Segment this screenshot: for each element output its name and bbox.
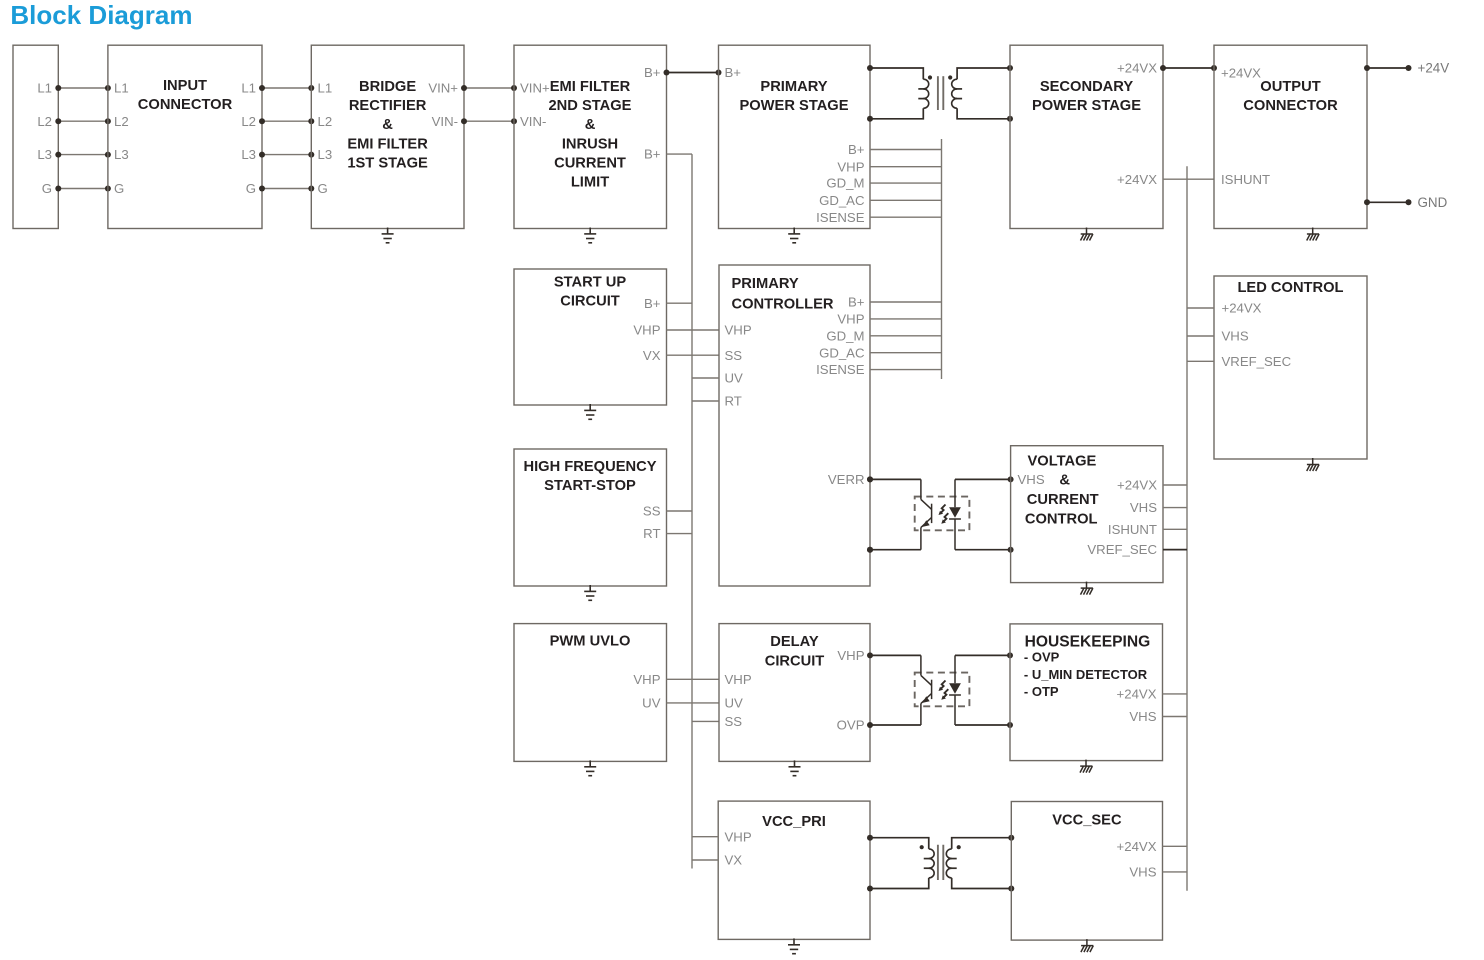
ground (chassis) under SECONDARY POWER STAGE [1081, 228, 1093, 241]
wire VHS: right bus to LED CONTROL [1187, 335, 1214, 337]
junction dot GND left [1364, 199, 1370, 205]
junction dot L2 left [55, 118, 61, 124]
svg-text:START UP: START UP [554, 275, 627, 291]
wire L1: INPUT CONNECTOR to BRIDGE RECTIFIER [262, 87, 311, 89]
svg-text:VHP: VHP [725, 672, 752, 687]
wire optocoupler OC2 to right block top [955, 654, 1010, 656]
ground (chassis) under OUTPUT CONNECTOR [1307, 228, 1319, 241]
svg-text:CIRCUIT: CIRCUIT [560, 294, 620, 310]
svg-text:LIMIT: LIMIT [571, 175, 609, 191]
optocoupler OC2 phototransistor [921, 655, 932, 725]
svg-text:B+: B+ [848, 295, 865, 310]
svg-text:G: G [246, 181, 256, 196]
svg-text:VIN+: VIN+ [520, 81, 550, 96]
wire L1: mains terminal to INPUT CONNECTOR [58, 87, 108, 89]
block U5: SECONDARY POWER STAGE [1010, 45, 1163, 228]
wire GD_M: PRIMARY POWER STAGE to gate-drive bus [870, 182, 942, 184]
junction dot L3 right [308, 152, 314, 158]
terminal dot +24V [1406, 65, 1412, 71]
junction dot optocoupler OC1 right-bottom [1008, 547, 1014, 553]
svg-text:VHP: VHP [725, 829, 752, 844]
ground (earth) under PWM UVLO [584, 760, 596, 775]
svg-text:&: & [585, 117, 596, 133]
svg-text:CONNECTOR: CONNECTOR [138, 97, 233, 113]
svg-text:GND: GND [1418, 195, 1448, 210]
wire UV: PWM UVLO to DELAY CIRCUIT [667, 702, 720, 704]
svg-text:EMI FILTER: EMI FILTER [347, 137, 428, 153]
svg-text:RECTIFIER: RECTIFIER [349, 98, 427, 114]
wire VHS: VOLTAGE & CURRENT CONTROL to right bus [1163, 507, 1187, 509]
junction dot T1 secondary bottom [1007, 116, 1013, 122]
wire VERR top to optocoupler OC1 [870, 478, 921, 480]
wire L3: mains terminal to INPUT CONNECTOR [58, 154, 108, 156]
svg-text:GD_M: GD_M [826, 176, 864, 191]
svg-text:G: G [42, 181, 52, 196]
wire +24VX: VOLTAGE & CURRENT CONTROL to right bus [1163, 484, 1187, 486]
svg-text:L1: L1 [241, 81, 256, 96]
wire G: mains terminal to INPUT CONNECTOR [58, 188, 108, 190]
junction dot L1 left [259, 85, 265, 91]
svg-text:VHS: VHS [1130, 500, 1157, 515]
optocoupler OC2 dashed package outline [915, 673, 970, 707]
junction dot T2 primary top [867, 835, 873, 841]
svg-text:G: G [114, 181, 124, 196]
junction dot +24VX left [1160, 65, 1166, 71]
junction dot T1 primary bottom [867, 116, 873, 122]
wire RT: B+ bus to PRIMARY CONTROLLER [692, 400, 719, 402]
svg-text:+24V: +24V [1418, 61, 1450, 76]
wire: vertical +24VX/VHS bus (right side) [1186, 166, 1188, 891]
svg-text:SS: SS [725, 714, 743, 729]
svg-text:INPUT: INPUT [163, 78, 207, 94]
wire ISHUNT: VOLTAGE & CURRENT CONTROL to right bus [1163, 528, 1187, 530]
block U14: HOUSEKEEPING [1010, 624, 1163, 761]
wire optocoupler OC2 to right block bottom [955, 724, 1010, 726]
wire B+: START UP CIRCUIT to B+ bus [667, 302, 693, 304]
wire VX-SS: START UP CIRCUIT to PRIMARY CONTROLLER [667, 354, 720, 356]
svg-text:L1: L1 [37, 81, 52, 96]
wire +24VX: SECONDARY POWER STAGE to OUTPUT CONNECTOR [1163, 67, 1214, 69]
svg-text:1ST STAGE: 1ST STAGE [347, 156, 428, 172]
svg-text:+24VX: +24VX [1222, 301, 1262, 316]
wire +24V output terminal [1367, 67, 1409, 69]
svg-text:UV: UV [725, 696, 744, 711]
junction dot L2 right [105, 118, 111, 124]
transformer T2 primary winding [929, 849, 934, 878]
junction dot T2 primary bottom [867, 886, 873, 892]
svg-text:VHP: VHP [633, 323, 660, 338]
junction dot L3 right [105, 152, 111, 158]
junction dot VIN+ left [461, 85, 467, 91]
junction dot L3 left [259, 152, 265, 158]
wire VHP: PRIMARY CONTROLLER to gate-drive bus [870, 318, 942, 320]
transformer T1: secondary loop wires [957, 68, 1010, 119]
svg-text:VIN-: VIN- [432, 114, 458, 129]
junction dot L1 right [105, 85, 111, 91]
svg-text:PRIMARY: PRIMARY [760, 79, 827, 95]
wire VIN+: BRIDGE RECTIFIER to EMI FILTER 2ND STAGE [464, 87, 514, 89]
svg-text:L2: L2 [114, 114, 129, 129]
block U4: PRIMARY POWER STAGE [719, 45, 871, 228]
wire +24VX: right bus to LED CONTROL [1187, 307, 1214, 309]
wire bottom return from optocoupler OC1 [870, 549, 921, 551]
wire B+ lower: EMI FILTER to B+ bus [667, 153, 693, 155]
block U12: PWM UVLO [514, 624, 667, 762]
transformer T1: main transformer primary loop wires [870, 68, 923, 119]
wire GD_AC: PRIMARY CONTROLLER to gate-drive bus [870, 352, 942, 354]
svg-text:VHS: VHS [1129, 865, 1156, 880]
transformer T2 core [938, 845, 943, 880]
svg-text:+24VX: +24VX [1117, 172, 1157, 187]
terminal dot GND [1406, 199, 1412, 205]
wire VREF_SEC: VOLTAGE & CURRENT CONTROL to right bus [1163, 549, 1187, 551]
svg-text:L2: L2 [318, 114, 333, 129]
svg-text:2ND STAGE: 2ND STAGE [549, 98, 632, 114]
junction dot L2 left [259, 118, 265, 124]
wire GND output terminal [1367, 201, 1409, 203]
svg-text:L3: L3 [241, 147, 256, 162]
ground (earth) under HIGH FREQUENCY START-STOP [584, 585, 596, 600]
wire +24VX: VCC_SEC to right bus [1163, 845, 1188, 847]
ground (earth) under BRIDGE RECTIFIER [382, 228, 394, 243]
wire UV: B+ bus to PRIMARY CONTROLLER [692, 377, 719, 379]
svg-text:OUTPUT: OUTPUT [1260, 79, 1320, 95]
junction dot optocoupler OC1 right-top [1008, 476, 1014, 482]
junction dot VIN- right [511, 118, 517, 124]
svg-text:HIGH FREQUENCY: HIGH FREQUENCY [523, 459, 656, 475]
wire SS: HIGH FREQUENCY to B+ bus [667, 510, 693, 512]
svg-text:VIN+: VIN+ [428, 81, 458, 96]
transformer T2: VCC transformer primary loop wires [870, 838, 929, 889]
svg-text:VHS: VHS [1222, 329, 1249, 344]
wire ISHUNT: SECONDARY POWER STAGE to OUTPUT CONNECTOR [1163, 178, 1214, 180]
svg-text:RT: RT [643, 526, 660, 541]
junction dot G left [259, 186, 265, 192]
transformer T1 primary winding [923, 79, 928, 108]
svg-text:Block Diagram: Block Diagram [10, 0, 192, 30]
junction dot T2 secondary top [1008, 835, 1014, 841]
svg-text:LED CONTROL: LED CONTROL [1237, 280, 1343, 296]
block U3: EMI FILTER 2ND STAGE & INRUSH CURRENT LIMIT [514, 45, 667, 228]
junction dot optocoupler OC2 left-bottom [867, 722, 873, 728]
wire G: INPUT CONNECTOR to BRIDGE RECTIFIER [262, 188, 311, 190]
svg-text:CONNECTOR: CONNECTOR [1243, 98, 1338, 114]
wire VIN-: BRIDGE RECTIFIER to EMI FILTER 2ND STAGE [464, 120, 514, 122]
svg-text:VREF_SEC: VREF_SEC [1222, 354, 1292, 369]
wire +24VX: HOUSEKEEPING to right bus [1163, 693, 1188, 695]
svg-text:VHP: VHP [633, 672, 660, 687]
svg-text:VERR: VERR [828, 472, 865, 487]
svg-text:VCC_PRI: VCC_PRI [762, 814, 826, 830]
svg-text:CONTROL: CONTROL [1025, 511, 1098, 527]
svg-text:VHP: VHP [837, 648, 864, 663]
transformer T1 polarity dot secondary [948, 75, 952, 79]
ground (chassis) under LED CONTROL [1307, 458, 1319, 471]
block U16: VCC_SEC [1011, 802, 1162, 941]
wire L2: INPUT CONNECTOR to BRIDGE RECTIFIER [262, 120, 311, 122]
ground (chassis) under VCC_SEC [1081, 939, 1093, 952]
svg-text:GD_M: GD_M [826, 328, 864, 343]
junction dot optocoupler OC2 right-bottom [1007, 722, 1013, 728]
svg-text:- OVP: - OVP [1024, 650, 1060, 665]
svg-text:SS: SS [725, 348, 743, 363]
transformer T1 secondary winding [952, 79, 957, 108]
junction dot L1 right [308, 85, 314, 91]
svg-text:+24VX: +24VX [1117, 687, 1157, 702]
svg-text:SS: SS [643, 504, 661, 519]
block U2: BRIDGE RECTIFIER & EMI FILTER 1ST STAGE [311, 45, 464, 228]
wire SS: B+ bus to DELAY CIRCUIT [692, 720, 719, 722]
junction dot VIN+ right [511, 85, 517, 91]
svg-text:+24VX: +24VX [1117, 839, 1157, 854]
wire VHP: PRIMARY POWER STAGE to gate-drive bus [870, 166, 942, 168]
optocoupler OC1 light arrows [940, 505, 945, 514]
svg-text:RT: RT [725, 394, 742, 409]
block U6: OUTPUT CONNECTOR [1214, 45, 1367, 228]
svg-text:+24VX: +24VX [1221, 65, 1261, 80]
wire VHP: PWM UVLO to DELAY CIRCUIT [667, 678, 720, 680]
wire ISENSE: PRIMARY CONTROLLER to gate-drive bus [870, 369, 942, 371]
wire GD_AC: PRIMARY POWER STAGE to gate-drive bus [870, 199, 942, 201]
junction dot optocoupler OC2 right-top [1007, 652, 1013, 658]
wire L2: mains terminal to INPUT CONNECTOR [58, 120, 108, 122]
wire bottom return from optocoupler OC2 [870, 724, 921, 726]
svg-text:UV: UV [642, 696, 661, 711]
block U13: DELAY CIRCUIT [719, 624, 870, 762]
wire VX: B+ bus to VCC_PRI [692, 859, 718, 861]
transformer T2: secondary loop wires [952, 838, 1012, 889]
wire VERR top to optocoupler OC2 [870, 654, 921, 656]
junction dot VIN- left [461, 118, 467, 124]
wire RT: HIGH FREQUENCY to B+ bus [667, 533, 693, 535]
junction dot T2 secondary bottom [1008, 886, 1014, 892]
junction dot L3 left [55, 152, 61, 158]
svg-text:DELAY: DELAY [770, 634, 819, 650]
junction dot G left [55, 186, 61, 192]
svg-text:EMI FILTER: EMI FILTER [550, 79, 631, 95]
svg-text:+24VX: +24VX [1117, 61, 1157, 76]
svg-text:+24VX: +24VX [1117, 478, 1157, 493]
block U8: PRIMARY CONTROLLER [719, 265, 870, 586]
junction dot optocoupler OC1 left-top [867, 476, 873, 482]
svg-text:L2: L2 [241, 114, 256, 129]
svg-text:- OTP: - OTP [1024, 684, 1059, 699]
svg-text:CIRCUIT: CIRCUIT [765, 654, 825, 670]
wire: vertical B+ bus (net B+) [691, 154, 693, 868]
junction dot B+ right [716, 70, 722, 76]
junction dot VERR (PRIMARY CONTROLLER) [867, 476, 873, 482]
svg-text:VCC_SEC: VCC_SEC [1052, 812, 1122, 828]
svg-text:ISENSE: ISENSE [816, 210, 865, 225]
optocoupler OC1 dashed package outline [915, 497, 970, 531]
svg-text:B+: B+ [644, 147, 661, 162]
svg-text:L1: L1 [318, 81, 333, 96]
svg-text:GD_AC: GD_AC [819, 193, 865, 208]
wire VHP: START UP CIRCUIT to PRIMARY CONTROLLER [667, 329, 720, 331]
block U10: VOLTAGE & CURRENT CONTROL [1011, 446, 1163, 583]
wire optocoupler OC1 to right block top [955, 478, 1011, 480]
junction dot B+ left [664, 70, 670, 76]
svg-text:PRIMARY: PRIMARY [732, 276, 799, 292]
svg-text:L3: L3 [114, 147, 129, 162]
svg-text:INRUSH: INRUSH [562, 137, 618, 153]
block U9: HIGH FREQUENCY START-STOP [514, 449, 667, 586]
transformer T1 polarity dot primary [928, 75, 932, 79]
ground (chassis) under VOLTAGE & CURRENT CONTROL [1081, 582, 1093, 595]
svg-text:VHS: VHS [1129, 709, 1156, 724]
svg-text:VOLTAGE: VOLTAGE [1028, 454, 1097, 470]
junction dot optocoupler OC1 left-bottom [867, 547, 873, 553]
ground (earth) under EMI FILTER 2ND STAGE [584, 228, 596, 243]
svg-text:ISENSE: ISENSE [816, 362, 865, 377]
svg-text:VX: VX [643, 348, 661, 363]
junction dot G right [308, 186, 314, 192]
svg-text:B+: B+ [644, 296, 661, 311]
optocoupler OC1 LED [949, 479, 961, 549]
svg-text:ISHUNT: ISHUNT [1221, 172, 1270, 187]
svg-text:&: & [382, 117, 393, 133]
svg-text:L1: L1 [114, 81, 129, 96]
transformer T2 polarity dot secondary [957, 845, 961, 849]
svg-text:UV: UV [725, 371, 744, 386]
svg-text:VHP: VHP [725, 323, 752, 338]
svg-text:- U_MIN DETECTOR: - U_MIN DETECTOR [1024, 667, 1148, 682]
ground (earth) under START UP CIRCUIT [584, 404, 596, 419]
transformer T1 core [938, 76, 943, 110]
junction dot L2 right [308, 118, 314, 124]
wire VHS: VCC_SEC to right bus [1163, 871, 1188, 873]
svg-text:VREF_SEC: VREF_SEC [1087, 542, 1157, 557]
svg-text:HOUSEKEEPING: HOUSEKEEPING [1025, 634, 1151, 651]
svg-text:B+: B+ [644, 65, 661, 80]
svg-text:BRIDGE: BRIDGE [359, 79, 416, 95]
optocoupler OC1 phototransistor [921, 479, 932, 549]
wire VHS: HOUSEKEEPING to right bus [1163, 716, 1188, 718]
ground (chassis) under HOUSEKEEPING [1080, 760, 1092, 773]
junction dot +24VX right [1211, 65, 1217, 71]
svg-text:G: G [318, 181, 328, 196]
junction dot +24V left [1364, 65, 1370, 71]
optocoupler OC2 LED [949, 655, 961, 725]
block U11: LED CONTROL [1214, 276, 1367, 459]
ground (earth) under DELAY CIRCUIT [789, 760, 801, 775]
svg-text:GD_AC: GD_AC [819, 345, 865, 360]
svg-text:POWER STAGE: POWER STAGE [1032, 98, 1141, 114]
svg-text:B+: B+ [725, 65, 742, 80]
svg-text:OVP: OVP [837, 718, 865, 733]
svg-text:CONTROLLER: CONTROLLER [732, 297, 834, 313]
block U1: INPUT CONNECTOR [108, 45, 262, 228]
svg-text:VHP: VHP [837, 312, 864, 327]
svg-text:VIN-: VIN- [520, 114, 546, 129]
svg-text:VHS: VHS [1018, 472, 1045, 487]
svg-text:CURRENT: CURRENT [1027, 492, 1099, 508]
svg-text:ISHUNT: ISHUNT [1108, 522, 1157, 537]
svg-text:CURRENT: CURRENT [554, 156, 626, 172]
svg-text:PWM UVLO: PWM UVLO [550, 634, 631, 650]
svg-text:VHP: VHP [837, 159, 864, 174]
svg-text:VX: VX [725, 853, 743, 868]
ground (earth) under PRIMARY POWER STAGE [788, 228, 800, 243]
junction dot T1 primary top [867, 65, 873, 71]
svg-text:SECONDARY: SECONDARY [1040, 79, 1134, 95]
svg-text:&: & [1059, 472, 1070, 488]
junction dot L1 left [55, 85, 61, 91]
wire VHP: B+ bus to VCC_PRI [692, 836, 718, 838]
block U7: START UP CIRCUIT [514, 269, 667, 405]
wire B+: PRIMARY CONTROLLER to gate-drive bus [870, 301, 942, 303]
wire L3: INPUT CONNECTOR to BRIDGE RECTIFIER [262, 154, 311, 156]
ground (earth) under VCC_PRI [788, 938, 800, 953]
wire ISENSE: PRIMARY POWER STAGE to gate-drive bus [870, 216, 942, 218]
junction dot return (PRIMARY CONTROLLER bottom) [867, 547, 873, 553]
junction dot G right [105, 186, 111, 192]
svg-text:L2: L2 [37, 114, 52, 129]
svg-text:L3: L3 [37, 147, 52, 162]
transformer T2 polarity dot primary [920, 845, 924, 849]
junction dot T1 secondary top [1007, 65, 1013, 71]
svg-text:L3: L3 [318, 147, 333, 162]
svg-text:POWER STAGE: POWER STAGE [739, 98, 848, 114]
svg-text:START-STOP: START-STOP [544, 478, 636, 494]
wire GD_M: PRIMARY CONTROLLER to gate-drive bus [870, 335, 942, 337]
svg-text:B+: B+ [848, 142, 865, 157]
wire B+: EMI FILTER to PRIMARY POWER STAGE [667, 72, 719, 74]
wire VREF_SEC: right bus to LED CONTROL [1187, 360, 1214, 362]
wire: vertical gate-drive bus to PRIMARY CONTROLLER [941, 139, 943, 379]
transformer T2 secondary winding [946, 849, 951, 878]
block: mains terminal (unlabeled connector) [13, 45, 58, 228]
optocoupler OC2 light arrows [940, 681, 945, 690]
wire optocoupler OC1 to right block bottom [955, 549, 1011, 551]
block U15: VCC_PRI [718, 801, 870, 939]
wire B+: PRIMARY POWER STAGE to gate-drive bus [870, 149, 942, 151]
junction dot optocoupler OC2 left-top [867, 652, 873, 658]
